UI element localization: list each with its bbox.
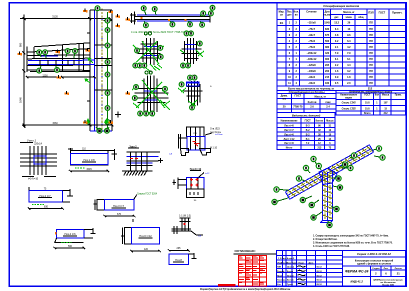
svg-text:–75x6: –75x6	[308, 40, 316, 43]
svg-text:Лист t=8: Лист t=8	[284, 125, 294, 128]
balloon 2	[197, 41, 202, 46]
svg-text:1250: 1250	[42, 74, 48, 77]
svg-text:7.9: 7.9	[335, 52, 339, 55]
svg-text:05.12: 05.12	[317, 284, 323, 286]
svg-text:260: 260	[325, 70, 330, 73]
svg-text:элем.: элем.	[345, 16, 352, 19]
svg-text:Итого: Итого	[286, 148, 293, 150]
spec table texts	[279, 4, 403, 85]
svg-text:Ф1: Ф1	[280, 22, 284, 25]
svg-text:Дата: Дата	[308, 262, 314, 264]
svg-text:Пров.: Пров.	[277, 275, 283, 277]
svg-text:ГОСТ: ГОСТ	[379, 12, 386, 15]
gusset detail 3	[134, 76, 168, 116]
svg-text:эл: эл	[280, 14, 283, 17]
weld arrow at joint	[85, 58, 93, 83]
bolts on beam	[141, 17, 187, 21]
balloon 3	[65, 49, 70, 57]
svg-text:Серия 1.460.3-14 КМ-12: Серия 1.460.3-14 КМ-12	[357, 252, 391, 256]
svg-text:Поз.8: Поз.8	[175, 258, 182, 262]
svg-text:1. Сварку производить электрод: 1. Сварку производить электродами Э42 по…	[313, 235, 389, 238]
svg-text:Стадия: Стадия	[372, 268, 380, 270]
svg-text:ПЛ: ПЛ	[369, 70, 373, 73]
balloon 10	[96, 127, 102, 133]
svg-text:Лист t=6: Лист t=6	[284, 133, 294, 136]
svg-text:4.8: 4.8	[335, 34, 339, 37]
balloon 3	[184, 31, 189, 36]
plate detail J	[28, 187, 73, 210]
balloon 6	[170, 21, 175, 27]
svg-text:–200x12: –200x12	[307, 52, 317, 55]
svg-text:–120x8: –120x8	[307, 64, 316, 67]
svg-text:зданий с фермами из уголков: зданий с фермами из уголков	[357, 263, 392, 266]
svg-text:1640: 1640	[19, 97, 23, 103]
svg-text:Поз.4 t=6: Поз.4 t=6	[64, 232, 76, 236]
base plate detail Q	[122, 152, 163, 171]
svg-text:2.6: 2.6	[310, 106, 314, 109]
svg-text:360: 360	[325, 58, 330, 61]
svg-text:СОГЛАСОВАНО:: СОГЛАСОВАНО:	[235, 249, 256, 253]
svg-text:2.2: 2.2	[335, 64, 339, 67]
svg-text:Сталь С245: Сталь С245	[342, 101, 357, 104]
svg-text:№док: №док	[291, 261, 298, 264]
svg-text:420: 420	[325, 52, 330, 55]
balloon 2	[141, 6, 146, 15]
balloon 1	[373, 146, 382, 151]
balloon 11	[300, 196, 312, 203]
balloon 9	[105, 120, 110, 125]
approval red stamp	[238, 256, 266, 286]
balloon 3	[179, 82, 184, 87]
balloon 14	[327, 221, 332, 228]
section mark	[109, 9, 113, 13]
steel list table	[336, 91, 405, 116]
svg-text:болтов: болтов	[308, 101, 317, 104]
svg-text:Лист: Лист	[384, 268, 389, 270]
svg-text:Поз.3 t=7: Поз.3 t=7	[113, 204, 125, 208]
section mark	[126, 17, 130, 21]
svg-text:Прим.: Прим.	[395, 94, 402, 96]
balloon 7	[73, 49, 78, 58]
svg-text:Ведомость деталей: Ведомость деталей	[292, 113, 321, 117]
svg-text:560: 560	[325, 40, 330, 43]
N label underline	[173, 261, 184, 263]
balloon 4	[43, 50, 48, 58]
svg-text:2.4: 2.4	[326, 106, 330, 109]
svg-text:830: 830	[325, 28, 330, 31]
gusset detail 4	[184, 81, 203, 106]
svg-text:–90x6: –90x6	[308, 76, 316, 79]
svg-text:Масса: Масса	[382, 94, 390, 96]
balloon 5	[138, 111, 143, 116]
svg-text:2.0: 2.0	[347, 82, 351, 85]
svg-text:7.9: 7.9	[347, 52, 351, 55]
svg-text:4.4: 4.4	[347, 64, 351, 67]
svg-text:ПЛ: ПЛ	[369, 76, 373, 79]
balloon 16	[333, 185, 343, 190]
svg-text:Разраб.: Разраб.	[277, 270, 285, 273]
svg-text:ПЛ: ПЛ	[369, 64, 373, 67]
balloon 5	[37, 66, 42, 73]
svg-text:Лист t=7: Лист t=7	[284, 129, 294, 132]
main node detail : chord beam	[27, 43, 90, 72]
plate detail N	[168, 249, 197, 264]
svg-text:ГИП: ГИП	[277, 267, 282, 269]
balloon 3	[209, 11, 214, 16]
svg-text:дет.: дет.	[334, 16, 339, 19]
svg-text:1545: 1545	[86, 168, 92, 171]
column internal plates	[87, 21, 112, 102]
svg-text:ПЛ: ПЛ	[369, 82, 373, 85]
svg-text:215: 215	[325, 76, 330, 79]
balloon 6	[316, 163, 321, 170]
svg-text:на,мм: на,мм	[323, 14, 330, 17]
svg-text:во: во	[295, 14, 299, 17]
details list table	[277, 113, 335, 150]
balloon 7	[181, 63, 186, 68]
balloon 5	[311, 156, 317, 165]
svg-text:05.12: 05.12	[317, 271, 323, 273]
balloon 7	[134, 85, 139, 90]
svg-text:1545: 1545	[324, 22, 330, 25]
svg-text:4.2: 4.2	[347, 46, 351, 49]
svg-text:675: 675	[325, 34, 330, 37]
balloon 2	[105, 72, 110, 77]
small balloon	[149, 71, 152, 74]
svg-text:ПЛ: ПЛ	[369, 58, 373, 61]
svg-text:Лист t=8: Лист t=8	[284, 142, 294, 145]
balloon 5	[133, 63, 138, 68]
small balloon	[144, 32, 147, 35]
balloon 3	[163, 87, 168, 92]
balloon 4	[152, 7, 157, 15]
svg-text:Н.контр.: Н.контр.	[277, 280, 286, 282]
balloon 3	[105, 43, 110, 48]
svg-text:Поз.6 t=12: Поз.6 t=12	[139, 234, 152, 238]
svg-text:ФЕРМА ФС-24: ФЕРМА ФС-24	[345, 270, 368, 274]
spec table	[277, 3, 405, 91]
svg-text:420: 420	[144, 248, 149, 251]
section mark	[83, 120, 87, 124]
balloon 13	[311, 212, 322, 220]
svg-text:Спецификация на болты: Спецификация на болты	[289, 90, 326, 94]
svg-text:Масса, кг: Масса, кг	[343, 11, 354, 14]
balloon 8	[105, 106, 110, 111]
balloon 6	[144, 111, 149, 116]
balloon 5	[105, 60, 110, 65]
plate detail K	[94, 195, 137, 218]
svg-text:Лист t=12: Лист t=12	[284, 138, 295, 141]
balloon 6	[55, 66, 60, 72]
svg-text:КМД-41.2: КМД-41.2	[350, 280, 363, 284]
svg-text:ПЭЛ: ПЭЛ	[368, 12, 373, 15]
L label underline	[63, 235, 77, 237]
balloon 8	[190, 105, 195, 110]
section mark	[116, 23, 120, 27]
svg-text:675: 675	[117, 213, 122, 216]
blue bar on gusset 4	[187, 82, 200, 86]
svg-text:980: 980	[19, 42, 23, 47]
balloon 8	[200, 21, 205, 27]
title block grid	[276, 251, 405, 287]
svg-text:Конструкции стальные покрытий: Конструкции стальные покрытий	[355, 259, 394, 262]
isometric gusset	[319, 168, 337, 185]
balloon 9	[210, 5, 215, 10]
svg-text:05.12: 05.12	[317, 280, 323, 282]
balloon 1	[95, 6, 100, 11]
svg-text:t=14 t=10: t=14 t=10	[28, 178, 39, 181]
svg-text:Кол во: Кол во	[316, 120, 324, 122]
svg-text:3. Монтажные соединения на бол: 3. Монтажные соединения на болтах М20 кл…	[313, 242, 393, 245]
svg-text:Всего: Всего	[364, 113, 371, 115]
bolts table	[277, 91, 336, 113]
svg-text:–75x7: –75x7	[308, 28, 316, 31]
svg-text:3.2: 3.2	[347, 70, 351, 73]
cross detail H	[20, 146, 57, 175]
svg-text:Сталь С255: Сталь С255	[342, 108, 357, 110]
section mark	[83, 8, 87, 12]
balloon 4	[186, 63, 191, 68]
svg-text:Шилов: Шилов	[287, 267, 295, 269]
svg-text:Сварка ГОСТ 5264: Сварка ГОСТ 5264	[137, 193, 158, 195]
svg-text:6.1: 6.1	[335, 58, 339, 61]
svg-text:6.4: 6.4	[347, 40, 351, 43]
svg-text:180: 180	[325, 82, 330, 85]
section mark	[57, 75, 61, 79]
svg-text:ПЛ: ПЛ	[369, 40, 373, 43]
svg-text:–75x6: –75x6	[308, 46, 316, 49]
balloon 9	[142, 63, 147, 68]
svg-text:мм: мм	[282, 98, 286, 101]
notes	[313, 235, 393, 249]
section mark	[86, 48, 90, 52]
svg-text:ПЛ: ПЛ	[369, 46, 373, 49]
svg-text:Подп.: Подп.	[299, 262, 305, 264]
balloon 2	[150, 111, 155, 116]
svg-text:Белов: Белов	[287, 280, 294, 282]
balloon 2	[374, 155, 385, 160]
balloon 10	[272, 198, 288, 205]
balloon 6	[105, 91, 110, 96]
section mark	[126, 91, 130, 95]
svg-text:Сечение: Сечение	[306, 11, 317, 14]
balloon 3	[350, 153, 357, 158]
balloon 1	[132, 96, 137, 101]
main node detail : dimension lines	[20, 15, 112, 129]
svg-text:гаек: гаек	[325, 101, 331, 104]
svg-text:9.6: 9.6	[347, 34, 351, 37]
svg-text:05.12: 05.12	[317, 267, 323, 269]
svg-text:Москва 1989: Москва 1989	[382, 285, 394, 287]
svg-text:0.9: 0.9	[335, 76, 339, 79]
balloon 12	[309, 200, 319, 208]
gusset detail 1	[138, 38, 161, 65]
balloon 6	[192, 75, 197, 80]
svg-text:2.1: 2.1	[335, 46, 339, 49]
balloon 4	[342, 165, 353, 170]
svg-text:Спецификация металла: Спецификация металла	[323, 4, 359, 8]
section mark	[116, 14, 120, 18]
balloon 7	[303, 165, 310, 173]
balloon 2	[188, 75, 193, 80]
balloon 3	[158, 54, 163, 59]
svg-text:7798-70: 7798-70	[293, 106, 303, 109]
balloon 7	[188, 21, 193, 27]
main label underline	[20, 141, 33, 143]
svg-text:1.6: 1.6	[335, 70, 339, 73]
svg-text:6.4: 6.4	[335, 28, 339, 31]
svg-text:Масса: Масса	[326, 120, 334, 122]
balloon 9	[105, 18, 110, 23]
svg-text:ПЛ: ПЛ	[369, 34, 373, 37]
svg-text:–60x6: –60x6	[308, 82, 316, 85]
main node detail : column member	[90, 9, 112, 133]
chord blue lines	[28, 56, 95, 64]
svg-text:13.2: 13.2	[334, 22, 339, 25]
svg-text:ПЛ: ПЛ	[369, 22, 373, 25]
svg-text:ГОСТ: ГОСТ	[364, 94, 371, 96]
svg-text:830: 830	[44, 206, 49, 209]
svg-text:1560: 1560	[52, 122, 58, 125]
plate detail G (with blue box)	[178, 127, 212, 156]
balloon 8	[137, 63, 142, 68]
red mark on bottom frame	[218, 284, 236, 287]
balloon 8	[296, 176, 305, 181]
svg-text:Гусев: Гусев	[287, 284, 294, 286]
Q foundation hatch	[124, 171, 147, 175]
balloon 8	[105, 28, 110, 33]
svg-text:Утв.: Утв.	[277, 284, 282, 286]
svg-text:1-1 (М 1:5): 1-1 (М 1:5)	[179, 215, 191, 218]
isometric view : diagonal member	[285, 145, 373, 199]
svg-text:380: 380	[325, 46, 330, 49]
svg-text:Ведомость отправочных марок: Ведомость отправочных марок	[349, 90, 392, 94]
balloon 15	[331, 206, 339, 212]
svg-text:–90x7: –90x7	[308, 34, 316, 37]
balloon 1	[135, 48, 140, 53]
svg-text:4 отв. Ø23 шаг 80 болты М20: 4 отв. Ø23 шаг 80 болты М20 ГОСТ 7798-70	[131, 30, 184, 34]
svg-text:Отв. Ø23: Отв. Ø23	[210, 129, 220, 131]
svg-text:4. Сталь С245 по ГОСТ 27772-88: 4. Сталь С245 по ГОСТ 27772-88.	[313, 245, 350, 248]
svg-text:М 1:10: М 1:10	[210, 148, 218, 150]
svg-text:–100x8: –100x8	[307, 70, 316, 73]
svg-text:560: 560	[68, 245, 73, 248]
small balloon	[148, 32, 151, 35]
plate detail I	[68, 148, 117, 172]
balloon 17	[332, 176, 341, 181]
balloon 5	[144, 21, 149, 28]
plate detail L	[54, 228, 96, 249]
balloon 9	[274, 187, 289, 192]
svg-text:Наименование: Наименование	[281, 120, 299, 122]
svg-text:ПЛ: ПЛ	[369, 52, 373, 55]
svg-text:–110x8: –110x8	[307, 22, 316, 25]
balloon 6	[158, 46, 163, 51]
svg-text:3120: 3120	[52, 15, 58, 19]
svg-text:0.5: 0.5	[335, 82, 339, 85]
balloon 1	[200, 11, 206, 16]
title block texts	[277, 252, 403, 287]
balloon 18	[338, 162, 348, 168]
svg-text:2. Отверстия Ø23 мм.: 2. Отверстия Ø23 мм.	[313, 239, 338, 241]
section detail O	[172, 218, 203, 235]
svg-text:6.1: 6.1	[347, 58, 351, 61]
gusset detail 2	[182, 38, 202, 64]
svg-text:ГОСТ: ГОСТ	[305, 120, 312, 122]
J label underline	[38, 197, 52, 199]
svg-text:Кол: Кол	[375, 94, 380, 96]
svg-text:10.8: 10.8	[365, 108, 370, 110]
chord dim line below	[26, 76, 96, 78]
svg-text:ГОСТ: ГОСТ	[294, 95, 301, 98]
bottom dim line of node	[23, 112, 121, 127]
K label underline	[112, 207, 127, 209]
balloon 2	[37, 50, 42, 57]
svg-text:под болты: под болты	[210, 132, 221, 134]
svg-text:295: 295	[325, 64, 330, 67]
section mark	[65, 91, 69, 95]
svg-text:220х14: 220х14	[34, 143, 43, 146]
svg-text:Листов: Листов	[395, 268, 403, 270]
svg-text:Масса, кг: Масса, кг	[315, 96, 326, 99]
svg-text:Ильин: Ильин	[287, 275, 294, 277]
M label underline	[139, 237, 153, 239]
svg-text:05.12: 05.12	[317, 275, 323, 277]
svg-text:Котов: Котов	[287, 271, 294, 273]
svg-text:ПЛ: ПЛ	[369, 28, 373, 31]
svg-text:295: 295	[177, 247, 182, 250]
section mark	[109, 120, 113, 124]
svg-text:+: +	[210, 85, 212, 89]
svg-text:Примеч.: Примеч.	[392, 12, 402, 15]
bolt ticks on chord	[40, 60, 74, 65]
svg-text:общ.: общ.	[358, 16, 364, 19]
isometric view : vertical member	[321, 172, 333, 223]
section mark	[18, 51, 22, 55]
section mark	[56, 49, 60, 53]
plate detail M	[121, 219, 161, 252]
I label underline	[82, 161, 96, 163]
svg-text:марки: марки	[345, 98, 352, 100]
green weld arrows column base	[86, 119, 108, 125]
svg-text:Наименование: Наименование	[340, 94, 358, 96]
top beam detail	[130, 12, 210, 25]
svg-text:–180x12: –180x12	[307, 58, 317, 61]
svg-text:10.8: 10.8	[365, 102, 370, 104]
svg-text:1.8: 1.8	[347, 76, 351, 79]
balloon 11	[105, 127, 110, 133]
small balloon	[145, 71, 148, 74]
svg-text:3.2: 3.2	[335, 40, 339, 43]
svg-text:1 2 Лист 4 изм.2: 1 2 Лист 4 изм.2	[278, 257, 295, 260]
balloon 5	[189, 31, 194, 36]
bolted plate detail P (blue with red crosses)	[172, 173, 204, 198]
